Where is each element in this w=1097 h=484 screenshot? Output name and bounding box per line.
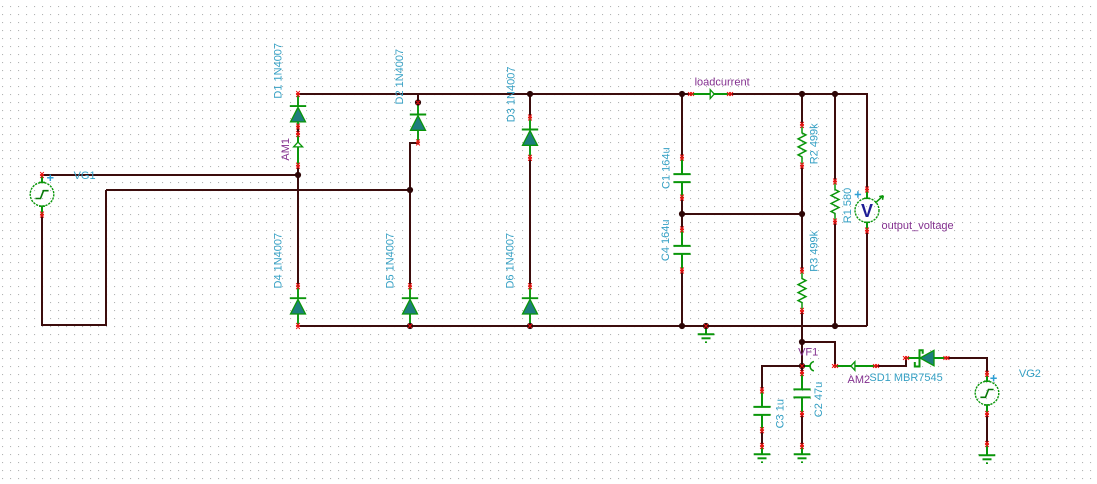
svg-text:D6 1N4007: D6 1N4007 [505, 233, 517, 289]
svg-text:C3 1u: C3 1u [774, 399, 786, 428]
svg-text:D5 1N4007: D5 1N4007 [385, 233, 397, 289]
svg-text:VG2: VG2 [1019, 368, 1041, 380]
svg-text:V: V [861, 201, 873, 221]
svg-text:SD1 MBR7545: SD1 MBR7545 [869, 372, 942, 384]
svg-text:VF1: VF1 [798, 347, 818, 359]
svg-text:AM2: AM2 [848, 374, 871, 386]
svg-text:C4 164u: C4 164u [660, 220, 672, 262]
svg-text:AM1: AM1 [280, 138, 292, 161]
svg-text:C2 47u: C2 47u [813, 382, 825, 417]
svg-text:C1 164u: C1 164u [660, 147, 672, 189]
svg-text:loadcurrent: loadcurrent [695, 76, 750, 88]
svg-text:D3 1N4007: D3 1N4007 [505, 67, 517, 123]
svg-text:R3 499k: R3 499k [809, 230, 821, 271]
svg-text:D2 1N4007: D2 1N4007 [394, 49, 406, 105]
svg-text:D1 1N4007: D1 1N4007 [273, 43, 285, 99]
svg-text:D4 1N4007: D4 1N4007 [273, 233, 285, 289]
svg-text:R2 499k: R2 499k [809, 123, 821, 164]
svg-text:output_voltage: output_voltage [882, 220, 954, 232]
svg-text:R1 580: R1 580 [842, 188, 854, 223]
svg-text:VG1: VG1 [74, 170, 96, 182]
